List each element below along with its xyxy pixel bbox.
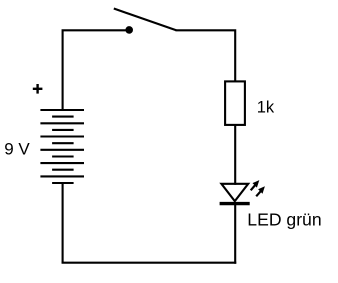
LED light arrow 1 — [251, 180, 260, 190]
bottom rail wire — [62, 262, 237, 264]
wire left rail top + top rail to switch contact — [63, 30, 130, 110]
resistor R1 body — [225, 81, 245, 125]
LED light arrow 2 — [256, 186, 265, 196]
wire top rail right + right rail down to resistor — [176, 30, 236, 81]
battery BT1 plus label — [33, 88, 43, 90]
battery BT1 plates — [40, 110, 84, 183]
svg-text:1k: 1k — [257, 98, 275, 116]
svg-text:9 V: 9 V — [4, 139, 30, 158]
wire LED to bottom rail — [234, 204, 236, 264]
wire battery minus to bottom rail — [62, 183, 64, 263]
switch S1 lever (open) — [114, 9, 176, 31]
LED D1 triangle (anode) — [221, 184, 248, 201]
svg-text:LED grün: LED grün — [247, 209, 321, 229]
LED D1 cathode bar — [220, 202, 250, 205]
switch S1 contact dot — [125, 26, 133, 34]
wire resistor to LED — [234, 125, 236, 185]
